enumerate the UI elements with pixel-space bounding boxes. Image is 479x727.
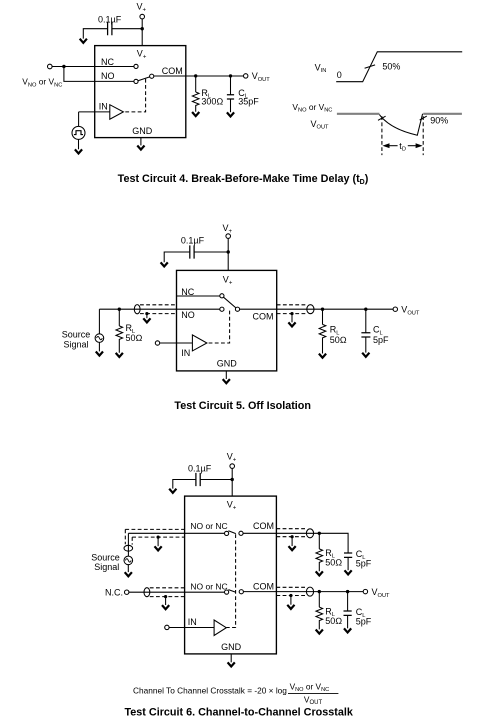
tD dimension arrow right: [408, 145, 416, 147]
svg-text:N.C.: N.C.: [105, 588, 123, 598]
wire source to ground TC5: [98, 342, 100, 351]
pin label NC TC5: [181, 287, 194, 297]
ground shield left TC5: [146, 314, 148, 319]
pin label IN TC6: [188, 617, 197, 627]
svg-text:Test Circuit 6. Channel-to-Cha: Test Circuit 6. Channel-to-Channel Cross…: [125, 707, 354, 719]
pin label IN TC4: [99, 101, 108, 111]
wire CL ch1 to ground TC6: [347, 557, 349, 570]
wire cap to V+ TC5: [194, 251, 228, 253]
resistor RL 300ohm TC4: [192, 92, 199, 112]
pin label COM ch2 TC6: [253, 581, 274, 591]
ground source TC4: [75, 149, 82, 153]
svg-text:Signal: Signal: [63, 340, 88, 350]
svg-text:IN: IN: [181, 348, 190, 358]
source signal label TC6: [91, 552, 120, 572]
caption Test Circuit 5: [174, 400, 311, 412]
node label VOUT TC6: [372, 587, 391, 599]
svg-text:COM: COM: [162, 66, 183, 76]
value label 0.1uF TC5: [181, 235, 205, 245]
svg-text:Source: Source: [62, 330, 91, 340]
terminal V+ TC4: [140, 14, 145, 19]
wire CL stem TC4: [230, 76, 232, 95]
ground CL ch1 TC6: [345, 570, 352, 574]
svg-text:5pF: 5pF: [356, 559, 372, 569]
ground RL ch2 TC6: [316, 630, 323, 634]
wire cap to ground TC4: [83, 29, 107, 39]
pin label NO TC5: [181, 310, 195, 320]
VIN trace waveform: [336, 52, 462, 82]
svg-text:5pF: 5pF: [356, 617, 372, 627]
label 0 waveform: [337, 70, 342, 80]
pin label NO or NC ch1 TC6: [190, 521, 227, 531]
svg-text:0.1µF: 0.1µF: [181, 235, 205, 245]
wire RL left stem TC5: [118, 309, 120, 326]
op-amp buffer TC4: [110, 105, 124, 120]
switch pole COM ch1 TC6: [239, 531, 243, 535]
svg-text:NO: NO: [101, 71, 115, 81]
wire cap to ground TC5: [164, 252, 190, 262]
source sine TC6: [124, 556, 133, 565]
svg-text:COM: COM: [253, 581, 274, 591]
shield coax right TC5: [277, 305, 307, 314]
resistor RL 50ohm ch2 TC6: [316, 607, 323, 629]
shield coax ch1 right TC6: [276, 529, 306, 537]
wire COM to VOUT TC4: [154, 75, 244, 77]
resistor RL 50ohm right TC5: [319, 324, 326, 353]
pin label IN TC5: [181, 348, 190, 358]
pin label V+ inside TC4: [137, 49, 147, 61]
node V+ label TC6: [227, 452, 237, 464]
dashed actuator link TC4: [124, 79, 146, 112]
junction RL ch2 top TC6: [318, 590, 321, 593]
pin label GND TC5: [217, 358, 238, 368]
junction CL top TC5: [364, 308, 367, 311]
junction shield ch1 ground TC6: [157, 536, 160, 539]
wire COM ch1 to CL TC6: [243, 533, 348, 553]
VOUT flat level right (gray): [423, 113, 462, 115]
switch contact ch1 TC6: [225, 531, 229, 535]
IC box U1 TC5: [177, 270, 277, 371]
svg-text:Test Circuit 4. Break-Before-M: Test Circuit 4. Break-Before-Make Time D…: [118, 173, 369, 186]
wire IN TC6: [169, 627, 214, 629]
svg-text:IN: IN: [188, 617, 197, 627]
wire branch to NO row TC4: [64, 67, 134, 82]
node V+ label TC4: [137, 2, 147, 14]
capacitor CL 35pF TC4: [227, 95, 234, 99]
svg-text:GND: GND: [221, 642, 242, 652]
shield coax ch2 left TC6: [150, 588, 185, 597]
value label RL 50 left TC5: [126, 323, 143, 343]
shield coax left TC5: [140, 305, 177, 314]
pin label NO or NC ch2 TC6: [190, 581, 227, 591]
svg-text:Source: Source: [91, 552, 120, 562]
node label VOUT TC4: [252, 71, 271, 83]
ground shield ch2 right TC6: [290, 596, 292, 605]
switch arm ch2 TC6: [228, 590, 235, 593]
capacitor 0.1uF TC4: [108, 22, 112, 35]
ground shield ch1 right TC6: [291, 537, 293, 546]
dashed marker right: [422, 116, 424, 155]
junction RL ch1 top TC6: [318, 532, 321, 535]
wire CL to ground TC4: [230, 99, 232, 112]
svg-text:50%: 50%: [382, 62, 400, 72]
wire CL stem TC5: [365, 309, 367, 332]
terminal VOUT TC5: [393, 307, 397, 311]
svg-text:50Ω: 50Ω: [126, 333, 143, 343]
ground CL TC5: [362, 353, 369, 357]
source sine TC5: [95, 334, 104, 343]
junction shield left ground TC5: [145, 312, 148, 315]
svg-text:5pF: 5pF: [373, 335, 389, 345]
ground source TC5: [96, 352, 103, 356]
wire source to ground TC6: [127, 565, 129, 572]
svg-text:Test Circuit 5. Off Isolation: Test Circuit 5. Off Isolation: [174, 400, 311, 412]
wire source drop TC6: [127, 533, 129, 556]
dashed marker left: [381, 116, 383, 155]
value label RL 300 TC4: [201, 88, 223, 107]
wire GND stem TC6: [230, 654, 232, 662]
node label VOUT TC5: [401, 305, 420, 317]
node label VOUT waveform: [311, 119, 330, 131]
wire NC row TC4: [52, 66, 134, 68]
wire source to IN TC4: [78, 112, 80, 127]
capacitor CL 5pF ch1 TC6: [344, 553, 352, 557]
svg-text:NO: NO: [181, 310, 195, 320]
pin label COM ch1 TC6: [253, 521, 274, 531]
VOUT flat level left (gray): [337, 113, 380, 115]
svg-text:COM: COM: [253, 521, 274, 531]
ground CL ch2 TC6: [344, 628, 351, 632]
value label RL 50 ch2 TC6: [325, 606, 342, 626]
svg-text:NO or NC: NO or NC: [190, 521, 227, 531]
switch pole COM ch2 TC6: [239, 590, 243, 594]
tD dimension arrow left: [389, 145, 397, 147]
junction shield right ground TC5: [290, 312, 293, 315]
wire source row to NO TC5: [99, 308, 219, 310]
junction V+/cap TC6: [231, 478, 234, 481]
pulse source TC4: [72, 126, 85, 139]
label tD: [399, 141, 406, 153]
ground cap TC6: [169, 489, 176, 493]
wire cap to V+ TC6: [200, 479, 232, 481]
svg-text:0.1µF: 0.1µF: [98, 15, 122, 25]
shield coax ch2 right TC6: [276, 587, 306, 595]
source signal label TC5: [62, 330, 91, 350]
svg-text:Channel To Channel Crosstalk =: Channel To Channel Crosstalk = -20 × log: [133, 685, 287, 695]
caption Test Circuit 4: [118, 173, 369, 186]
switch pole COM TC5: [235, 307, 239, 311]
ground RL left TC5: [116, 353, 123, 357]
wire cap to V+ TC4: [112, 28, 142, 30]
wire source row ch1 TC6: [128, 532, 224, 534]
label 90 percent: [430, 116, 448, 126]
wire V+ to box TC6: [231, 468, 233, 496]
value label 0.1uF TC6: [188, 464, 212, 474]
pin label GND TC6: [221, 642, 242, 652]
svg-text:90%: 90%: [430, 116, 448, 126]
switch arm ch1 TC6: [228, 531, 235, 534]
shield coax ch1 left TC6: [125, 529, 184, 544]
wire IN TC5: [160, 342, 193, 344]
pin label GND TC4: [132, 126, 153, 136]
junction RL left top TC5: [118, 308, 121, 311]
wire cap to ground TC6: [173, 480, 196, 489]
terminal V+ TC5: [226, 234, 231, 239]
wire CL ch2 to ground TC6: [347, 615, 349, 628]
dashed actuator link TC6: [227, 534, 236, 627]
ground shield ch2 left TC6: [165, 597, 167, 605]
terminal IN TC6: [165, 625, 169, 629]
caption Test Circuit 6: [125, 707, 354, 719]
junction shield ch2 left ground TC6: [164, 595, 167, 598]
junction V+/cap TC4: [141, 27, 144, 30]
wire source to ground TC4: [78, 139, 80, 149]
ground shield ch1 left TC6: [157, 537, 159, 546]
pin label COM TC5: [253, 312, 274, 322]
crosstalk formula TC6: [133, 681, 329, 706]
IC box U1 TC4: [95, 46, 186, 138]
ground shield right TC5: [291, 314, 293, 323]
switch contact NO TC4: [134, 79, 138, 83]
capacitor CL 5pF TC5: [361, 333, 370, 337]
svg-text:NO or NC: NO or NC: [190, 581, 227, 591]
pin label COM TC4: [162, 66, 183, 76]
dashed actuator link TC5: [207, 311, 230, 343]
wire NC row TC5: [177, 295, 220, 297]
wire RL right stem TC5: [322, 309, 324, 324]
junction CL top TC4: [229, 74, 232, 77]
wire V+ to box TC4: [141, 19, 143, 46]
svg-text:0.1µF: 0.1µF: [188, 464, 212, 474]
node label VNO or VNC waveform: [292, 102, 332, 114]
ground RL ch1 TC6: [316, 571, 323, 575]
capacitor 0.1uF TC5: [190, 245, 194, 258]
value label RL 50 right TC5: [330, 325, 347, 346]
terminal VOUT TC4: [244, 74, 248, 78]
rise top tick: [420, 116, 427, 120]
wire GND stem TC4: [140, 138, 142, 146]
node V+ label TC5: [223, 223, 233, 235]
ground cap TC5: [161, 262, 168, 266]
VOUT decay curve: [379, 114, 422, 135]
ground source TC6: [125, 572, 132, 576]
value label CL 5pF ch2 TC6: [356, 607, 372, 627]
node label VNO or VNC TC4: [22, 77, 62, 89]
wire GND stem TC5: [225, 371, 227, 379]
svg-text:NC: NC: [101, 57, 114, 67]
capacitor 0.1uF TC6: [196, 473, 200, 486]
wire CL to ground TC5: [365, 337, 367, 353]
svg-text:COM: COM: [253, 312, 274, 322]
terminal IN TC5: [155, 341, 159, 345]
op-amp buffer TC6: [214, 620, 226, 636]
ground GND TC4: [137, 146, 144, 150]
junction RL right top TC5: [321, 308, 324, 311]
resistor RL 50ohm ch1 TC6: [316, 549, 323, 571]
pin label NC TC4: [101, 57, 114, 67]
value label CL 5pF TC5: [373, 325, 389, 346]
pin label V+ inside TC6: [227, 499, 237, 511]
wire RL stem TC4: [195, 76, 197, 92]
svg-text:50Ω: 50Ω: [330, 335, 347, 345]
ground RL TC4: [192, 112, 199, 116]
50 percent tick waveform: [365, 65, 376, 68]
value label RL 50 ch1 TC6: [325, 548, 342, 568]
junction input branch TC4: [62, 65, 65, 68]
value label 0.1uF TC4: [98, 15, 122, 25]
terminal VOUT TC6: [363, 589, 367, 593]
ground cap TC4: [80, 39, 87, 43]
switch contact NO TC5: [220, 307, 224, 311]
svg-text:50Ω: 50Ω: [325, 558, 342, 568]
pin label NO TC4: [101, 71, 115, 81]
fraction bar TC6 formula: [288, 692, 338, 694]
wire NC row ch2 TC6: [129, 591, 225, 593]
svg-text:GND: GND: [132, 126, 153, 136]
switch contact NC TC5: [220, 294, 224, 298]
IC box U1 TC6: [185, 496, 277, 654]
wire COM to VOUT TC5: [240, 308, 394, 310]
pin label V+ inside TC5: [223, 274, 233, 286]
wire source drop TC5: [98, 309, 100, 334]
value label CL 5pF ch1 TC6: [356, 549, 372, 569]
junction CL ch2 top TC6: [346, 590, 349, 593]
junction RL top TC4: [194, 74, 197, 77]
junction shield ch1 right ground TC6: [291, 535, 294, 538]
svg-text:35pF: 35pF: [238, 97, 259, 107]
decay start tick: [378, 116, 386, 120]
value label CL 35pF TC4: [238, 88, 259, 107]
terminal VNO/VNC TC4: [48, 64, 53, 69]
switch contact NC TC4: [134, 64, 138, 68]
ground RL right TC5: [319, 354, 326, 358]
terminal N.C. TC6: [125, 590, 129, 594]
wire CL ch2 stem TC6: [347, 592, 349, 611]
svg-text:300Ω: 300Ω: [201, 97, 223, 107]
wire IN TC4: [79, 111, 110, 113]
switch arm TC4: [138, 77, 150, 81]
svg-text:GND: GND: [217, 358, 238, 368]
label 50 percent waveform: [382, 62, 400, 72]
switch arm TC5: [224, 297, 236, 308]
ground GND TC6: [228, 662, 235, 666]
ground GND TC5: [223, 379, 230, 383]
capacitor CL 5pF ch2 TC6: [344, 611, 352, 615]
switch contact ch2 TC6: [225, 590, 229, 594]
junction V+/cap TC5: [227, 250, 230, 253]
svg-text:IN: IN: [99, 101, 108, 111]
node label N.C. TC6: [105, 588, 123, 598]
switch pole COM TC4: [150, 74, 154, 78]
wire V+ to box TC5: [227, 238, 229, 270]
svg-text:50Ω: 50Ω: [325, 616, 342, 626]
wire RL ch1 stem TC6: [318, 533, 320, 549]
resistor RL 50ohm left TC5: [116, 326, 123, 353]
svg-text:0: 0: [337, 70, 342, 80]
op-amp buffer TC5: [192, 335, 207, 351]
wire RL ch2 stem TC6: [318, 592, 320, 608]
junction shield ch2 right ground TC6: [289, 594, 292, 597]
node label VIN waveform: [315, 62, 327, 74]
terminal V+ TC6: [230, 464, 235, 469]
svg-text:Signal: Signal: [94, 562, 119, 572]
wire COM ch2 to VOUT TC6: [243, 591, 363, 593]
ground CL TC4: [227, 112, 234, 116]
